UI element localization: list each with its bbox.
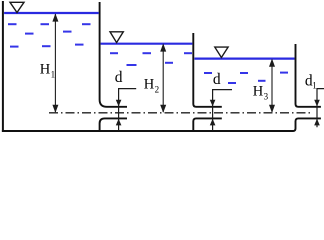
svg-text:3: 3 <box>264 91 269 101</box>
water dashes tank 3 <box>204 73 288 83</box>
dimension leader and arrows d (pipe 2) <box>210 90 232 131</box>
pipe 1 bottom wall <box>100 118 127 131</box>
wall 1 with pipe 1 top wall <box>100 2 127 107</box>
tank bottom wall <box>2 130 294 132</box>
water surface mark (triangle) tank 2 <box>110 32 123 43</box>
dimension line H3 <box>269 59 275 113</box>
dimension leader and arrows d (pipe 1) <box>116 89 136 131</box>
pipe axis centerline (dash-dot) <box>49 112 311 114</box>
svg-text:1: 1 <box>51 69 56 79</box>
svg-text:H: H <box>40 61 51 77</box>
water surface mark (triangle) tank 1 <box>10 2 24 12</box>
water surface 3 <box>194 57 294 59</box>
water surface 2 <box>101 43 193 45</box>
pipe 2 bottom wall <box>193 118 222 131</box>
wall 2 with pipe 2 top wall <box>193 33 222 107</box>
dimension line H2 <box>160 43 166 113</box>
water dashes tank 1 <box>8 24 91 46</box>
wall 3 with pipe 3 top wall <box>296 44 321 107</box>
svg-text:H: H <box>253 83 264 99</box>
dimension leader and arrows d1 (pipe 3) <box>314 89 324 128</box>
water surface mark (triangle) tank 3 <box>215 47 228 57</box>
tank left wall <box>2 1 4 132</box>
svg-text:H: H <box>144 76 155 92</box>
svg-text:1: 1 <box>312 81 317 91</box>
water surface 1 <box>4 12 99 14</box>
svg-text:d: d <box>115 69 123 86</box>
pipe 3 bottom wall <box>293 118 321 131</box>
dimension line H1 <box>52 13 58 113</box>
svg-text:2: 2 <box>155 84 160 94</box>
water dashes tank 2 <box>110 53 192 65</box>
svg-text:d: d <box>213 71 221 88</box>
